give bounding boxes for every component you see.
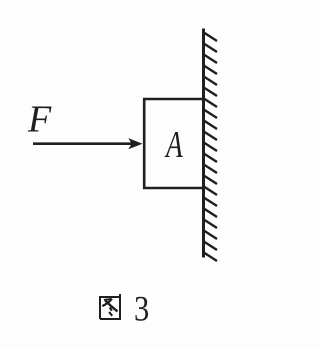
svg-text:3: 3	[134, 289, 149, 329]
wall hatching	[203, 32, 217, 261]
force arrow F shaft	[33, 142, 132, 145]
block A outline	[144, 99, 203, 188]
svg-text:F: F	[27, 99, 52, 141]
caption character 图	[100, 294, 120, 319]
force arrow F head	[128, 138, 142, 149]
svg-text:A: A	[164, 124, 183, 166]
wall	[202, 29, 205, 258]
